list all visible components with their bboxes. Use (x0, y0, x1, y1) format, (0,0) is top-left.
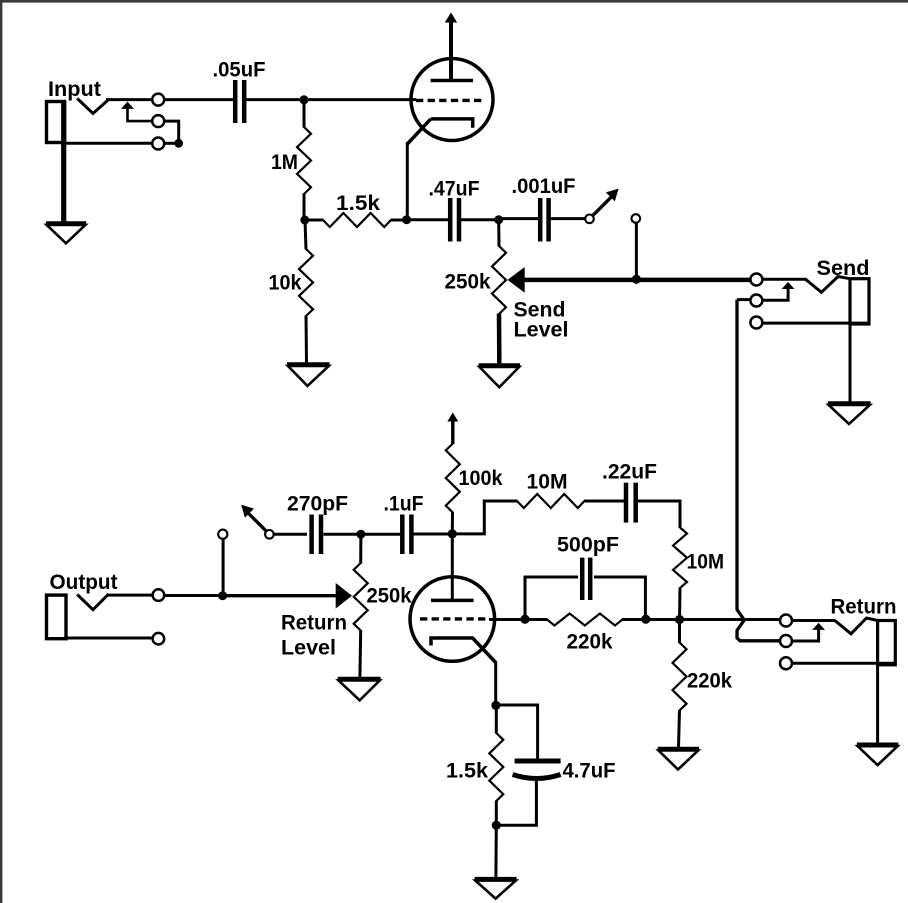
wire 500pF branch (525, 577, 578, 619)
tube V1 cathode bar with hook (431, 119, 473, 128)
node H plate junction (448, 529, 457, 538)
wire sleeve row (65, 142, 153, 145)
wire node G to C5 (361, 533, 400, 536)
wire tip circle to C1 (164, 98, 235, 101)
tube V1 grid dashed line (416, 99, 482, 102)
wire node L to C8 top (496, 705, 538, 759)
output sleeve contact circle (153, 633, 165, 645)
tube V2 grid dashed line (420, 617, 487, 620)
tube V1 envelope circle (411, 59, 493, 141)
svg-text:Return: Return (281, 612, 347, 635)
wire C3 to switch SW1 pole (550, 217, 586, 220)
svg-text:.22uF: .22uF (602, 461, 657, 484)
wire send sleeve row (762, 322, 869, 325)
node M cathode RC bottom junction (492, 821, 501, 830)
jack J4 Return body rect (878, 621, 896, 665)
jack J1 Input sleeve barrel line (61, 101, 66, 222)
wire cathode down (494, 661, 497, 705)
node ring-to-sleeve junction (174, 139, 183, 148)
wire node K to return jack (680, 618, 782, 621)
capacitor C4 270pF (312, 515, 321, 555)
node C cathode junction (402, 215, 411, 224)
node G return pot top junction (356, 530, 365, 539)
wire ring contact to sleeve junction (164, 121, 179, 141)
capacitor C3 .001uF (540, 198, 548, 242)
node L cathode junction (491, 701, 500, 710)
tube V2 cathode bar with hook (431, 638, 474, 646)
output sleeve row wire (66, 637, 152, 640)
wire SW2 pole to C4 (273, 533, 307, 536)
svg-text:500pF: 500pF (557, 534, 619, 557)
capacitor C8 4.7uF top plate (515, 759, 561, 764)
wire C6 to corner down to R7 (638, 501, 680, 528)
wire SW1 throw down to send bus (635, 222, 638, 279)
output tip contact circle (153, 589, 165, 601)
svg-text:100k: 100k (459, 467, 503, 490)
wire sleeve circle to junction (164, 142, 179, 145)
node K main junction (675, 615, 684, 624)
resistor R6 10M (517, 494, 585, 508)
jack J3 Output tip V (77, 594, 109, 610)
jack J2 Send tip V (806, 277, 850, 293)
svg-text:4.7uF: 4.7uF (563, 760, 616, 783)
svg-text:Return: Return (831, 596, 897, 619)
wire C2 to node D (461, 218, 499, 221)
switch SW1 pole circle (585, 215, 594, 224)
tube V2 cathode diagonal (473, 638, 496, 663)
node J 220k right junction (641, 615, 650, 624)
ground input jack (46, 220, 86, 243)
wire cathode diagonal (407, 119, 431, 144)
jack J1 Input tip contact V (77, 99, 108, 114)
wire C4 to node G (324, 533, 361, 536)
capacitor C6 .22uF (626, 483, 636, 523)
border top bar (0, 0, 908, 3)
wire C8 bottom lead (496, 780, 536, 825)
tube V1 plate supply arrow (445, 13, 457, 82)
wire node D to C3 (499, 217, 538, 220)
wire return tip to jack V (791, 619, 835, 622)
svg-text:220k: 220k (687, 670, 732, 693)
svg-text:10M: 10M (527, 471, 568, 494)
capacitor C5 .1uF (402, 515, 411, 555)
wire send sleeve drop (849, 324, 852, 402)
svg-text:Level: Level (514, 319, 569, 342)
wire return sleeve drop (876, 665, 879, 744)
input ring contact circle (152, 115, 164, 127)
wire cathode lead vertical (406, 142, 409, 220)
input tip contact circle (152, 94, 164, 106)
jack J1 Input body rect (47, 102, 65, 143)
jack J2 Send body rect (850, 279, 869, 324)
wire node J to node K (646, 618, 680, 621)
svg-text:10k: 10k (269, 272, 302, 295)
svg-text:1.5k: 1.5k (336, 192, 380, 215)
resistor R8 220k (525, 614, 646, 626)
node I grid junction (520, 615, 529, 624)
tube V1 plate bar (431, 79, 473, 83)
svg-text:250k: 250k (367, 585, 412, 608)
ground return jack (857, 745, 898, 766)
switch SW1 throw contact circle (632, 214, 641, 223)
potentiometer R10 250k return level (354, 534, 368, 677)
node F output junction (218, 591, 227, 600)
node E send bus junction (632, 275, 641, 284)
jack J4 Return tip V (835, 618, 878, 634)
potentiometer R4 250k send level (492, 220, 506, 364)
svg-text:.001uF: .001uF (512, 175, 576, 198)
input ring switch lead with up arrow (128, 107, 153, 121)
wire C1 to node A (246, 98, 304, 101)
svg-text:1M: 1M (271, 151, 298, 174)
ground return pot (338, 679, 381, 701)
wire node C to C2 (407, 218, 448, 221)
wire node H step up to 10M (452, 501, 517, 534)
capacitor C7 500pF (582, 558, 590, 600)
wire grid to node I (489, 618, 525, 621)
return ring switch arrow (792, 623, 825, 641)
wire node A to tube grid (304, 98, 416, 101)
node D (494, 215, 503, 224)
node B 1M bottom junction (300, 216, 309, 225)
switch SW1 arm with arrowhead (593, 189, 619, 216)
wire 500pF branch right (594, 577, 645, 619)
resistor R9 220k vertical (673, 620, 687, 748)
resistor R7 10M vertical (673, 528, 687, 620)
switch SW2 pole circle (265, 530, 274, 539)
wire long vertical bus send ring to return ring (737, 300, 781, 641)
wire R6 to C6 (584, 500, 624, 503)
svg-text:1.5k: 1.5k (446, 760, 488, 783)
wire output tip circle to node F (165, 594, 223, 597)
wire input tip to switch circle (106, 98, 153, 101)
return jack tip contact circle (780, 615, 792, 627)
jack J3 Output body rect (47, 595, 67, 639)
potentiometer R10 wiper arrow (336, 583, 352, 609)
wire send bus (523, 278, 752, 283)
send jack sleeve contact circle (750, 317, 762, 329)
ground send pot (479, 365, 520, 387)
return jack sleeve contact circle (780, 657, 792, 669)
node A grid node dot (300, 95, 309, 104)
wire output tip (107, 594, 152, 597)
wire C5 to node H (414, 533, 453, 536)
capacitor C1 .05uF (235, 80, 244, 123)
resistor R11 1.5k (489, 705, 503, 825)
resistor R2 1.5k (305, 213, 407, 227)
tube V2 envelope circle (410, 577, 495, 662)
capacitor C8 4.7uF bottom curved plate (513, 775, 561, 779)
wire node M to ground (494, 825, 497, 878)
svg-text:10M: 10M (687, 550, 725, 573)
label Return Level (281, 612, 347, 660)
input sleeve contact circle (152, 138, 164, 150)
label Send Level (514, 299, 569, 342)
wire return level feed (223, 594, 337, 597)
send ring switch arrow (762, 282, 794, 300)
resistor R5 100k (446, 444, 460, 535)
svg-text:220k: 220k (567, 631, 613, 654)
ground 10k (287, 364, 330, 386)
send jack ring contact circle (750, 295, 762, 307)
svg-text:270pF: 270pF (287, 493, 348, 516)
svg-text:.47uF: .47uF (429, 178, 480, 201)
switch SW2 arm with arrowhead (241, 505, 266, 532)
svg-text:250k: 250k (445, 271, 491, 294)
return jack ring contact circle (780, 635, 792, 647)
wire send tip to jack V (762, 278, 807, 281)
resistor R3 10k (299, 220, 313, 363)
capacitor C2 .47uF (450, 198, 459, 242)
resistor R1 1M (297, 100, 311, 220)
svg-text:.05uF: .05uF (213, 59, 266, 82)
tube V2 plate lead (451, 534, 454, 601)
send jack tip contact circle (750, 274, 762, 286)
ground cathode RC (475, 879, 517, 899)
svg-text:Output: Output (50, 571, 118, 594)
border left bar (0, 0, 2, 903)
wire node F up to switch SW2 contact (222, 539, 225, 596)
ground send jack (828, 403, 871, 424)
tube V2 plate bar (431, 599, 474, 603)
svg-text:.1uF: .1uF (384, 493, 424, 516)
switch SW2 throw contact circle (218, 530, 227, 539)
wire return sleeve row (791, 662, 895, 665)
supply arrow bottom (447, 413, 458, 445)
svg-text:Input: Input (48, 78, 101, 101)
svg-text:Level: Level (281, 637, 336, 660)
wire send ring to vertical bus (737, 298, 752, 301)
ground 220k (658, 749, 699, 770)
potentiometer R4 wiper arrow (508, 267, 525, 293)
